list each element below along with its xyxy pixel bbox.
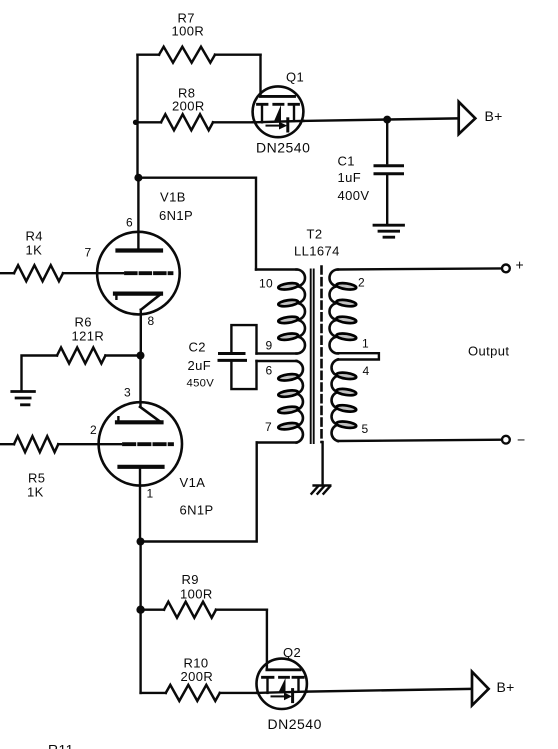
wire: V1A plate node to T2 pin7 bbox=[141, 443, 257, 542]
node: cathode junction V1B/V1A bbox=[137, 352, 145, 360]
node A: V1B plate / transformer junction bbox=[134, 174, 142, 182]
svg-text:B+: B+ bbox=[485, 108, 503, 124]
resistor R5 bbox=[0, 436, 58, 499]
resistor R9 bbox=[141, 572, 267, 618]
svg-text:121R: 121R bbox=[72, 329, 105, 344]
svg-text:R6: R6 bbox=[75, 315, 92, 330]
resistor R4 bbox=[0, 229, 63, 282]
svg-text:200R: 200R bbox=[181, 669, 214, 684]
tube V1B 6N1P bbox=[63, 190, 193, 356]
svg-text:Output: Output bbox=[468, 344, 509, 359]
node: C1 junction bbox=[383, 116, 391, 124]
svg-text:100R: 100R bbox=[172, 24, 205, 39]
svg-text:1K: 1K bbox=[26, 243, 43, 258]
node: V1A plate junction bbox=[137, 538, 145, 546]
svg-text:B+: B+ bbox=[497, 679, 515, 695]
wire: bottom B+ rail bbox=[307, 689, 470, 692]
svg-text:10: 10 bbox=[259, 277, 273, 291]
svg-text:6: 6 bbox=[126, 216, 133, 230]
svg-text:2: 2 bbox=[90, 423, 97, 437]
svg-text:1: 1 bbox=[362, 337, 369, 351]
svg-text:2: 2 bbox=[358, 276, 365, 290]
svg-text:DN2540: DN2540 bbox=[256, 140, 310, 156]
terminal B+ (bottom) bbox=[472, 672, 515, 706]
svg-text:450V: 450V bbox=[187, 378, 215, 390]
ground (C1) bbox=[374, 225, 404, 237]
terminal + output bbox=[502, 257, 524, 273]
wire: cathode bus to V1A bbox=[139, 356, 141, 407]
svg-text:3: 3 bbox=[124, 386, 131, 400]
resistor R10 bbox=[141, 656, 257, 701]
svg-text:7: 7 bbox=[85, 246, 92, 260]
svg-text:5: 5 bbox=[362, 422, 369, 436]
T2 core bbox=[311, 270, 314, 444]
svg-text:R11: R11 bbox=[48, 742, 74, 749]
svg-text:Q2: Q2 bbox=[283, 645, 301, 660]
T2 electrostatic shield (dashed) bbox=[320, 267, 323, 443]
T2 primary winding top (pins 10-9) bbox=[256, 270, 305, 354]
svg-text:DN2540: DN2540 bbox=[268, 716, 322, 732]
svg-text:R4: R4 bbox=[26, 229, 43, 244]
svg-text:6N1P: 6N1P bbox=[159, 208, 193, 223]
transistor Q2 DN2540 bbox=[257, 610, 322, 732]
wire: left bus from R7 down to V1B plate bbox=[136, 55, 139, 250]
svg-text:C2: C2 bbox=[189, 340, 206, 355]
svg-text:1: 1 bbox=[147, 487, 154, 501]
svg-text:V1B: V1B bbox=[160, 190, 186, 205]
terminal B+ (top) bbox=[459, 102, 503, 134]
svg-text:7: 7 bbox=[265, 420, 272, 434]
wire: shield to ground bbox=[321, 442, 323, 485]
svg-text:6N1P: 6N1P bbox=[180, 503, 214, 518]
wire: top B+ rail bbox=[303, 118, 457, 121]
svg-text:1uF: 1uF bbox=[338, 170, 362, 185]
capacitor C2 bbox=[187, 325, 257, 389]
wire: Q2 source row bbox=[257, 692, 307, 693]
resistor R6 bbox=[22, 315, 141, 392]
svg-text:2uF: 2uF bbox=[188, 358, 212, 373]
capacitor C1 bbox=[338, 120, 403, 223]
resistor R8 bbox=[138, 86, 253, 131]
T2 primary winding bottom (pins 6-7) bbox=[257, 361, 303, 443]
svg-text:100R: 100R bbox=[180, 587, 213, 602]
ground (R6) bbox=[12, 392, 35, 405]
svg-text:R9: R9 bbox=[182, 572, 199, 587]
svg-text:400V: 400V bbox=[338, 188, 370, 203]
svg-text:1K: 1K bbox=[27, 485, 44, 500]
svg-text:Q1: Q1 bbox=[286, 70, 304, 85]
resistor R7 bbox=[138, 11, 261, 63]
terminal - output bbox=[502, 432, 525, 448]
svg-text:T2: T2 bbox=[307, 227, 323, 242]
svg-text:6: 6 bbox=[266, 364, 273, 378]
T2 secondary winding bottom (pins 4-5) bbox=[332, 360, 502, 442]
svg-text:4: 4 bbox=[363, 364, 370, 378]
svg-text:V1A: V1A bbox=[180, 475, 206, 490]
tube V1A 6N1P bbox=[58, 386, 213, 542]
svg-text:9: 9 bbox=[266, 339, 273, 353]
wire: lower bus bbox=[139, 542, 141, 693]
svg-text:200R: 200R bbox=[172, 99, 205, 114]
ground (shield, hatched) bbox=[312, 486, 331, 494]
node: R9 junction bbox=[136, 606, 144, 614]
node: R8 tap junction bbox=[133, 120, 138, 125]
svg-text:−: − bbox=[517, 432, 525, 448]
svg-text:8: 8 bbox=[148, 314, 155, 328]
T2 secondary winding top (pins 2-1) bbox=[330, 268, 503, 359]
wire: Q1 source row inside circle bbox=[253, 121, 304, 122]
svg-text:+: + bbox=[516, 257, 524, 273]
transistor Q1 DN2540 bbox=[253, 55, 311, 156]
svg-text:C1: C1 bbox=[338, 154, 355, 169]
svg-text:LL1674: LL1674 bbox=[294, 244, 340, 259]
wire: plate node to T2 pin10 bbox=[138, 178, 256, 270]
svg-text:R5: R5 bbox=[28, 471, 45, 486]
